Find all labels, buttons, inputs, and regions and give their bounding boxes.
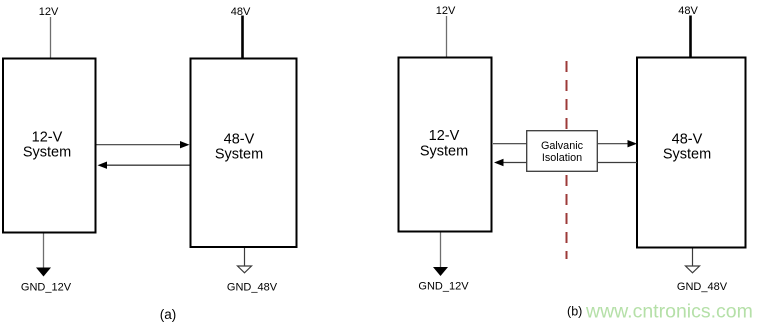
svg-text:GND_12V: GND_12V — [418, 281, 469, 293]
svg-text:Isolation: Isolation — [542, 152, 582, 164]
wire 48V-system to isolation (b) — [598, 162, 637, 164]
wire 48V lead (b) — [689, 16, 692, 58]
svg-text:www.cntronics.com: www.cntronics.com — [585, 301, 753, 323]
ground GND_12V (a) — [21, 234, 72, 294]
wire 48V lead (a) — [241, 16, 244, 59]
wire arrow 48V-to-12V (a) — [98, 162, 190, 169]
svg-text:48-V: 48-V — [672, 131, 703, 147]
block 12-V System (b) — [399, 58, 492, 232]
svg-text:48V: 48V — [231, 6, 251, 18]
svg-text:GND_48V: GND_48V — [677, 281, 728, 293]
node 12V label (b) — [436, 5, 456, 17]
wire arrow isolation to 12V-system (b) — [494, 159, 527, 166]
svg-text:System: System — [663, 147, 711, 163]
wire 12V-system to isolation (b) — [493, 143, 527, 145]
svg-text:Galvanic: Galvanic — [541, 140, 584, 152]
node 48V label (a) — [231, 6, 251, 18]
wire 12V lead (a) — [50, 17, 52, 58]
block 48-V System (a) — [191, 59, 297, 248]
ground GND_48V (a) — [227, 248, 278, 294]
svg-text:GND_48V: GND_48V — [227, 282, 278, 294]
svg-text:(b): (b) — [567, 305, 582, 319]
svg-text:12-V: 12-V — [429, 128, 460, 144]
block Galvanic Isolation (b) — [527, 131, 598, 172]
ground GND_48V (b) — [677, 249, 728, 294]
wire arrow isolation to 48V-system (b) — [598, 140, 637, 147]
svg-text:12V: 12V — [436, 5, 456, 17]
block 48-V System (b) — [637, 58, 746, 248]
node 48V label (b) — [678, 5, 698, 17]
label (b) — [567, 305, 582, 319]
wire 12V lead (b) — [446, 16, 448, 57]
svg-text:48-V: 48-V — [224, 131, 255, 147]
svg-text:(a): (a) — [160, 307, 177, 322]
svg-text:48V: 48V — [678, 5, 698, 17]
wire arrow 12V-to-48V (a) — [97, 141, 190, 148]
svg-text:System: System — [420, 144, 468, 160]
block 12-V System (a) — [3, 59, 96, 233]
label (a) — [160, 307, 177, 322]
svg-text:System: System — [23, 145, 71, 161]
svg-text:12-V: 12-V — [32, 129, 63, 145]
watermark www.cntronics.com — [585, 301, 753, 323]
svg-text:12V: 12V — [39, 6, 59, 18]
node 12V label (a) — [39, 6, 59, 18]
ground GND_12V (b) — [418, 233, 469, 293]
svg-text:GND_12V: GND_12V — [21, 282, 72, 294]
isolation barrier dashed line (b) — [566, 61, 568, 259]
svg-text:System: System — [215, 147, 263, 163]
